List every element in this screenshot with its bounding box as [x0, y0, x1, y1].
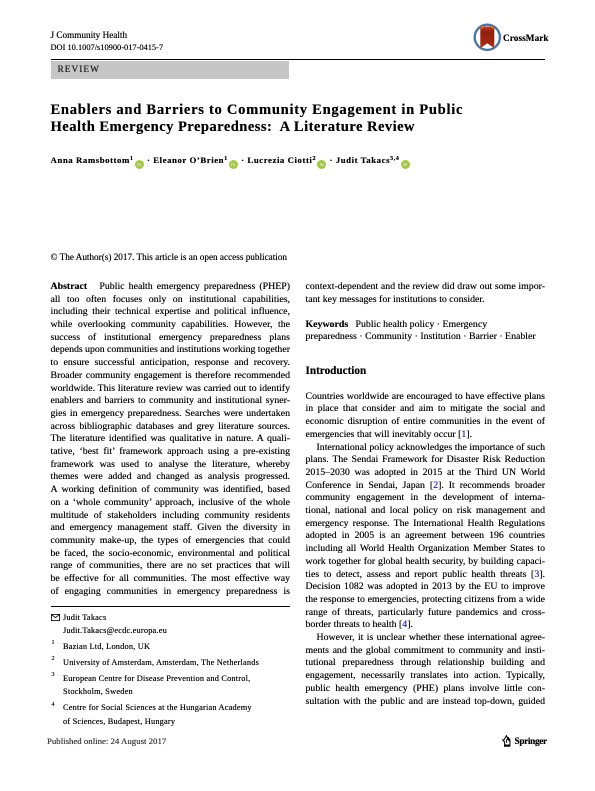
- Springer logo: [500, 733, 552, 749]
- keywords: [306, 319, 546, 344]
- title: [51, 102, 464, 136]
- envelope icon: [51, 614, 60, 621]
- right column: abstract continuation: [306, 281, 546, 306]
- CrossMark logo: [472, 22, 548, 54]
- journal name + DOI: [51, 30, 128, 40]
- REVIEW bar: [51, 61, 289, 78]
- right column body: [306, 391, 546, 709]
- header rule: [51, 59, 546, 61]
- footnotes: [51, 611, 301, 729]
- footnote separator: [51, 606, 291, 607]
- authors: [51, 155, 411, 169]
- Introduction heading: [306, 365, 367, 377]
- copyright line: [51, 252, 288, 262]
- left column: abstract: [51, 281, 291, 599]
- published online: [47, 736, 166, 746]
